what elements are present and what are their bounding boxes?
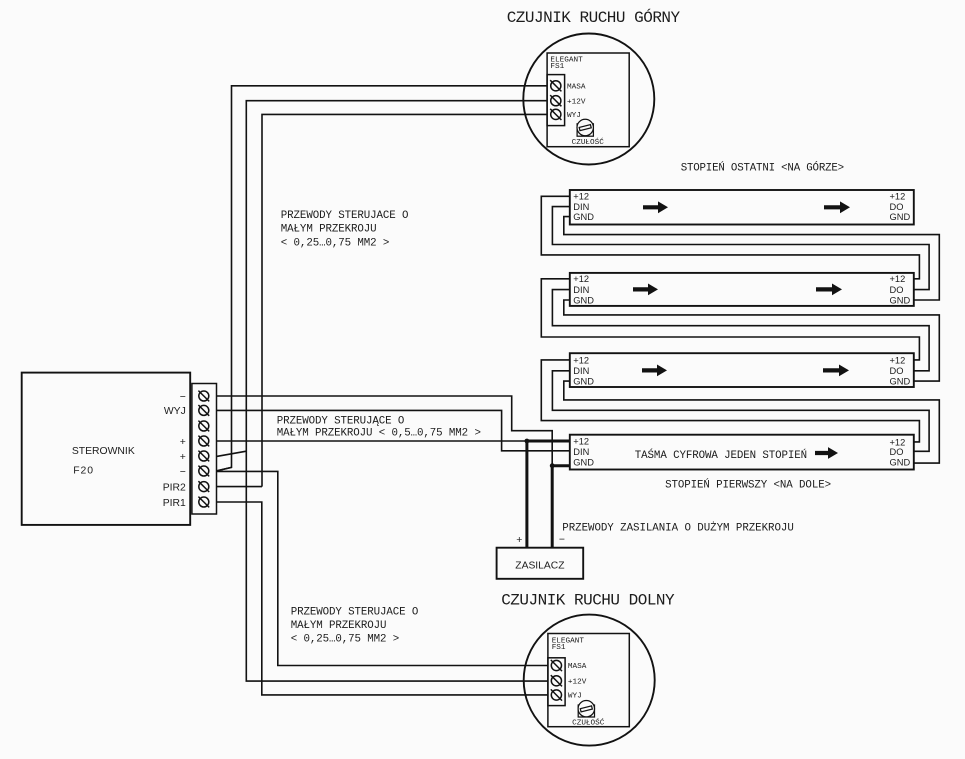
wire: controller T8 PIR1 to bottom sensor WYJ	[217, 502, 548, 695]
terminal 3 screw (unused)	[198, 421, 209, 432]
svg-text:MAŁYM PRZEKROJU: MAŁYM PRZEKROJU	[291, 620, 387, 632]
strip3 direction arrow right	[816, 284, 842, 296]
strip1 pin labels right	[890, 437, 911, 467]
thick power wire: +12 junction to strip1 +12	[527, 440, 570, 548]
text label: control wires small cross-section (top)	[281, 210, 409, 249]
motion sensor PIR2 module outline ELEGANT FS1	[548, 634, 629, 727]
svg-text:GND: GND	[573, 212, 594, 222]
svg-text:−: −	[559, 535, 565, 546]
top sensor screw terminal WYJ	[550, 109, 561, 120]
terminal 7 screw (PIR2)	[198, 481, 209, 492]
svg-text:GND: GND	[890, 457, 911, 467]
bottom sensor terminal block	[548, 658, 565, 706]
wire: top sensor +12V down shared to bottom sensor +12V	[246, 101, 548, 681]
svg-text:MASA: MASA	[568, 663, 587, 671]
wire: strip2 GND left to strip1 GND right	[564, 381, 940, 463]
power supply ZASILACZ body	[497, 548, 584, 579]
LED strip stage 2 body	[570, 353, 914, 387]
svg-text:+: +	[180, 437, 186, 448]
terminal 8 screw (PIR1)	[198, 497, 209, 508]
wire: controller T6 minus to bottom sensor MASA	[217, 471, 548, 665]
svg-text:+12: +12	[573, 274, 589, 284]
svg-text:DIN: DIN	[573, 285, 589, 295]
wire: strip2 +12 left to strip1 +12 right	[541, 360, 919, 442]
terminal 6 screw (minus)	[198, 466, 209, 477]
strip4 direction arrow left	[643, 201, 668, 213]
svg-text:CZUJNIK RUCHU DOLNY: CZUJNIK RUCHU DOLNY	[501, 592, 675, 610]
strip1 pin labels left	[573, 437, 594, 468]
terminal 5 screw (plus)	[198, 451, 209, 462]
terminal 2 screw (WYJ)	[198, 405, 209, 416]
motion sensor PIR1 module outline ELEGANT FS1	[547, 53, 629, 147]
wire: strip2 DIN left to strip1 DO right	[552, 371, 929, 452]
bottom sensor sensitivity trimmer CZULOSC	[578, 701, 594, 718]
bottom sensor screw terminal MASA	[551, 660, 562, 671]
motion sensor PIR2 (bottom) body circle	[524, 615, 655, 746]
svg-text:GND: GND	[573, 295, 594, 305]
terminal 1 screw (minus)	[198, 391, 209, 402]
svg-text:+12: +12	[573, 355, 589, 365]
wire: strip4 +12 left to strip3 +12 right	[541, 196, 919, 278]
top sensor screw terminal MASA	[550, 80, 561, 91]
svg-text:CZUŁOŚĆ: CZUŁOŚĆ	[572, 717, 605, 727]
strip2 direction arrow left	[642, 365, 667, 377]
svg-text:+: +	[180, 452, 186, 463]
controller STEROWNIK F20 body	[22, 373, 191, 525]
svg-text:+12: +12	[890, 274, 906, 284]
thick power wire: minus junction to strip1 GND and down to ZASILACZ	[552, 464, 570, 547]
strip1 direction arrow	[815, 447, 838, 459]
strip2 pin labels right	[890, 355, 911, 386]
wire: controller T1 minus to strip1 GND junction	[217, 396, 553, 466]
svg-text:PRZEWODY STERUJACE O: PRZEWODY STERUJACE O	[291, 606, 419, 618]
svg-text:DO: DO	[890, 366, 904, 376]
wire: strip3 DIN left to strip2 DO right	[552, 290, 929, 371]
bottom sensor screw terminal +12V	[551, 675, 562, 686]
svg-text:+12: +12	[890, 355, 906, 365]
svg-text:DIN: DIN	[573, 366, 589, 376]
svg-text:< 0,25…0,75 MM2 >: < 0,25…0,75 MM2 >	[291, 634, 399, 646]
svg-text:DO: DO	[890, 285, 904, 295]
svg-text:MASA: MASA	[567, 83, 586, 91]
wire: controller T7 PIR2 to top sensor WYJ vertical	[217, 486, 263, 488]
wire: controller T4 plus to power junction node	[217, 440, 527, 442]
wire: strip4 DIN left to strip3 DO right	[552, 207, 929, 290]
LED strip stage 4 (top, last) body	[570, 190, 914, 225]
svg-text:DO: DO	[890, 202, 904, 212]
svg-text:PIR1: PIR1	[163, 498, 186, 509]
svg-text:+12: +12	[573, 192, 589, 202]
svg-text:GND: GND	[890, 377, 911, 387]
svg-text:STOPIEŃ PIERWSZY <NA DOLE>: STOPIEŃ PIERWSZY <NA DOLE>	[665, 477, 831, 491]
strip3 direction arrow left	[633, 284, 658, 296]
svg-text:ZASILACZ: ZASILACZ	[515, 561, 564, 572]
svg-text:MAŁYM PRZEKROJU: MAŁYM PRZEKROJU	[281, 224, 377, 236]
terminal 4 screw (plus)	[198, 436, 209, 447]
wire: strip4 GND left to strip3 GND right	[564, 217, 940, 300]
svg-text:−: −	[180, 467, 186, 478]
svg-text:CZUJNIK RUCHU GÓRNY: CZUJNIK RUCHU GÓRNY	[507, 8, 681, 27]
top sensor sensitivity trimmer CZULOSC	[577, 119, 593, 136]
svg-text:PRZEWODY STERUJĄCE O: PRZEWODY STERUJĄCE O	[277, 415, 405, 427]
svg-text:WYJ: WYJ	[164, 406, 186, 417]
svg-text:DO: DO	[890, 447, 904, 457]
svg-text:GND: GND	[573, 457, 594, 467]
svg-text:CZUŁOŚĆ: CZUŁOŚĆ	[572, 137, 605, 147]
svg-text:STOPIEŃ OSTATNI <NA GÓRZE>: STOPIEŃ OSTATNI <NA GÓRZE>	[681, 161, 844, 175]
svg-text:DIN: DIN	[573, 202, 589, 212]
strip3 pin labels right	[890, 274, 911, 305]
svg-text:−: −	[180, 392, 186, 403]
wire: diagonal tap MASA vertical to terminal 6	[217, 467, 232, 471]
svg-text:PRZEWODY ZASILANIA O DUŻYM PRZ: PRZEWODY ZASILANIA O DUŻYM PRZEKROJU	[562, 522, 793, 535]
svg-text:+12V: +12V	[568, 678, 587, 686]
svg-text:+12V: +12V	[567, 98, 586, 106]
wire: diagonal tap +12V vertical to controller terminal 5 (plus)	[217, 451, 247, 456]
svg-text:PRZEWODY STERUJACE O: PRZEWODY STERUJACE O	[281, 210, 409, 222]
svg-text:WYJ: WYJ	[567, 112, 581, 120]
wire: top sensor WYJ down to controller terminal 7 (PIR2)	[262, 114, 547, 486]
text label: control wires small cross-section (middle)	[277, 415, 481, 439]
svg-text:FS1: FS1	[552, 644, 566, 652]
svg-text:WYJ: WYJ	[568, 693, 582, 701]
top sensor screw terminal +12V	[550, 95, 561, 106]
wire: strip3 +12 left to strip2 +12 right	[541, 279, 919, 360]
wire: controller T2 WYJ to strip1 DIN	[217, 410, 570, 450]
svg-text:+12: +12	[890, 192, 906, 202]
strip4 pin labels left +12 DIN GND	[573, 192, 594, 222]
strip4 pin labels right +12 DO GND	[890, 192, 911, 222]
svg-text:PIR2: PIR2	[163, 482, 186, 493]
svg-text:STEROWNIK: STEROWNIK	[72, 446, 135, 457]
svg-text:GND: GND	[890, 212, 911, 222]
wire: top sensor MASA to controller terminal 6 (minus)	[217, 86, 547, 471]
strip4 direction arrow right	[824, 201, 850, 213]
controller terminal strip	[192, 384, 217, 515]
svg-text:+: +	[516, 535, 522, 546]
svg-text:+12: +12	[573, 437, 589, 447]
svg-text:F20: F20	[73, 465, 94, 476]
motion sensor PIR1 (top) body circle	[523, 34, 654, 165]
svg-text:DIN: DIN	[573, 447, 589, 457]
strip2 direction arrow right	[823, 365, 849, 377]
top sensor terminal block	[547, 75, 565, 126]
strip3 pin labels left	[573, 274, 594, 305]
svg-text:+12: +12	[890, 437, 906, 447]
bottom sensor screw terminal WYJ	[551, 689, 562, 700]
junction node +	[525, 439, 530, 444]
junction node minus	[550, 463, 555, 468]
svg-text:TAŚMA CYFROWA JEDEN STOPIEŃ: TAŚMA CYFROWA JEDEN STOPIEŃ	[635, 448, 807, 462]
svg-text:GND: GND	[890, 295, 911, 305]
LED strip stage 3 body	[570, 273, 914, 306]
wire: strip3 GND left to strip2 GND right	[564, 300, 940, 381]
svg-text:GND: GND	[573, 377, 594, 387]
svg-text:MAŁYM PRZEKROJU < 0,5…0,75 MM2: MAŁYM PRZEKROJU < 0,5…0,75 MM2 >	[277, 427, 481, 439]
text label: control wires small cross-section (bottom)	[291, 606, 419, 645]
svg-text:< 0,25…0,75 MM2 >: < 0,25…0,75 MM2 >	[281, 237, 389, 249]
strip2 pin labels left	[573, 355, 594, 386]
svg-text:FS1: FS1	[550, 63, 564, 71]
LED strip stage 1 (bottom, first) body	[570, 435, 914, 470]
